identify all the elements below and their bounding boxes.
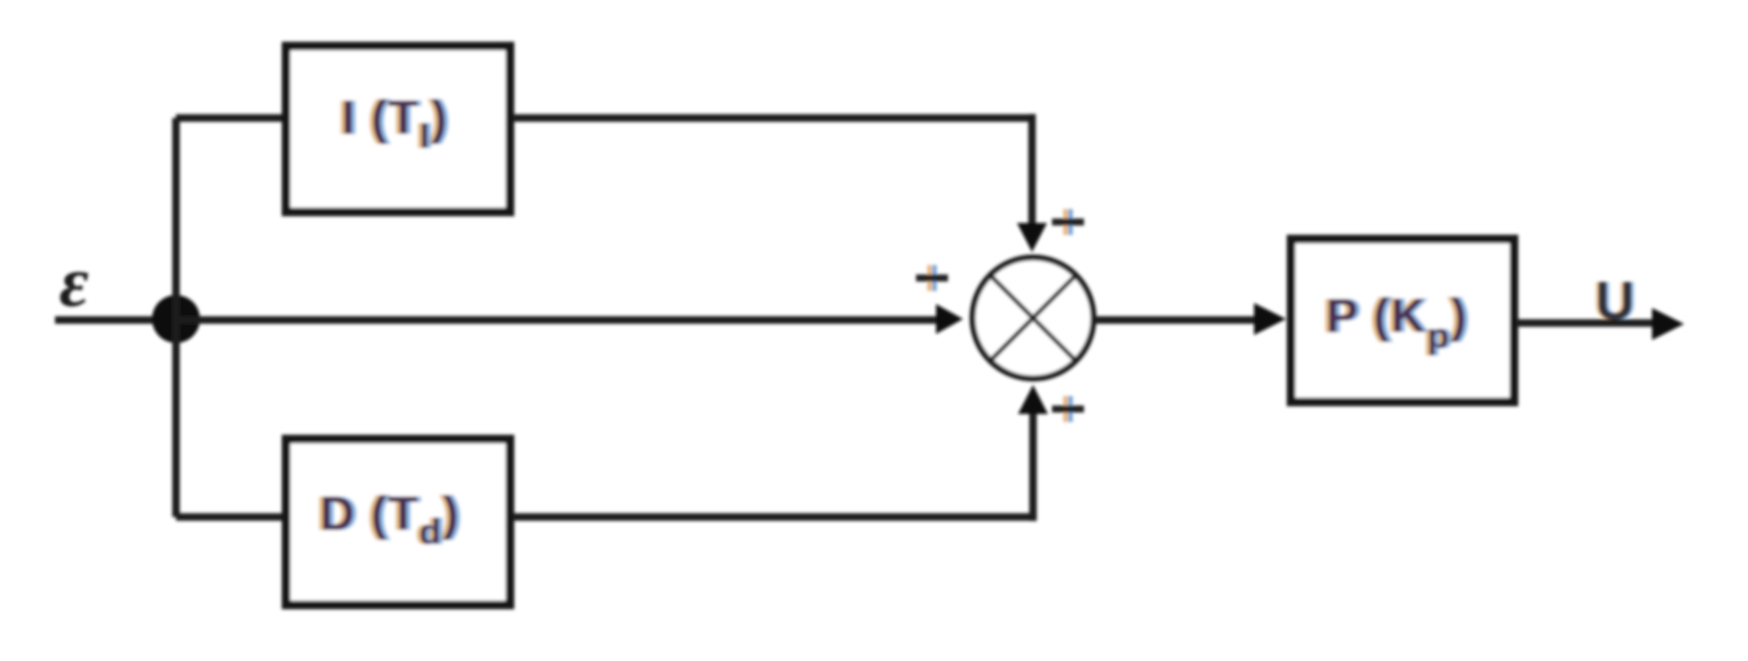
wire: down into summing junction (top) — [1028, 114, 1036, 226]
wire: D block output to corner below summing junction — [513, 513, 1033, 521]
wire: bottom branch into D block — [176, 513, 283, 521]
wire: summing junction output to P block — [1094, 316, 1256, 324]
wire: P block output — [1516, 319, 1655, 327]
arrowhead into summing junction (bottom input) — [1018, 385, 1048, 414]
block D (derivative action, Td) — [286, 439, 510, 605]
wire: node A down to derivative branch — [172, 319, 180, 517]
wire: node A to summing junction (middle branch) — [176, 316, 938, 324]
plus sign (middle input) — [916, 265, 948, 291]
wire: node A up to integral branch — [172, 118, 180, 320]
wire: input from epsilon to node A — [55, 316, 176, 324]
plus sign (top input) — [1052, 209, 1084, 235]
node A: pickoff junction dot — [152, 295, 200, 343]
label U (output signal) — [1593, 271, 1638, 331]
block P (proportional action, Kp) — [1291, 239, 1514, 402]
wire: I block output to corner above summing junction — [513, 114, 1032, 122]
arrowhead into summing junction (top input) — [1017, 223, 1047, 252]
plus sign (bottom input) — [1052, 396, 1084, 422]
summing junction circle — [973, 258, 1094, 379]
label I (Ti) — [338, 92, 453, 156]
summing junction X cross — [990, 275, 1076, 361]
arrowhead into P block — [1254, 303, 1286, 335]
arrowhead into summing junction (middle input) — [936, 304, 963, 334]
wire: top branch into I block — [176, 114, 283, 122]
svg-text:U: U — [1596, 271, 1635, 331]
arrowhead output U — [1652, 308, 1684, 340]
wire: up into summing junction (bottom) — [1029, 410, 1037, 521]
label P (Kp) — [1322, 290, 1472, 356]
svg-text:ε: ε — [59, 242, 89, 322]
label D (Td) — [316, 488, 464, 552]
block I (integral action, Ti) — [286, 46, 510, 212]
